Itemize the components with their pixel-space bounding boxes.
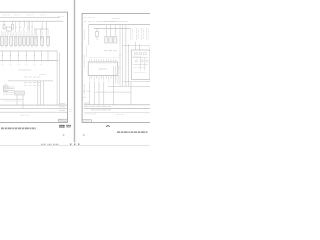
local line [0,98,23,100]
breaker box row CB1 [105,37,108,44]
inline component marks on drops [2,54,36,56]
sheet border frame left page [0,12,67,122]
pin id text inside box top [90,63,116,65]
vertical margin text 3 [83,84,85,95]
wire drop [46,29,48,35]
vertical margin text 1 [83,30,85,40]
ECU module block [131,50,150,79]
sub bus [34,28,48,30]
small label text [40,74,46,76]
top bus lower [94,27,130,29]
wire with inline fuse [96,28,98,40]
pin label texture in connector row [2,37,48,44]
stamp mark 1 (bold) [59,126,65,128]
wire drop from bus [24,21,26,27]
pin ticks up [89,59,115,62]
switch symbol speckle [35,35,48,40]
vertical margin text 2 [83,55,85,68]
fuse F1 [3,25,5,30]
wire drop [34,29,36,35]
lower text rows [4,93,15,95]
terminal tick marks [89,79,113,82]
fuse F10 [96,32,99,37]
mid bus [0,50,58,52]
drops below ECM box [89,75,115,79]
ECU internal divider [131,56,141,58]
net name text band 2 [91,109,111,111]
pin number text under boxes [1,46,49,48]
ECU outer boundary [122,46,150,82]
long verticals to bottom bus [89,83,113,105]
lower bus with junction ticks [0,60,58,62]
wires into ECU top [136,42,140,50]
faint lower rule [84,112,150,114]
bus row 2 label [84,106,90,108]
caption Figure 2 [117,131,148,133]
page number right [83,134,85,136]
sheet border frame right page [82,13,150,122]
top bus main [89,24,151,26]
note text [5,100,21,102]
faint note [20,114,29,116]
splice label text [81,90,91,92]
terminal id row 2 [24,82,40,84]
long wire pair [57,51,59,105]
breaker box row CB3 [114,37,117,44]
pin number row above box [89,57,117,59]
tick id text [2,64,43,66]
branch wire [17,95,23,109]
wire drop [39,29,41,35]
bus row 1 label [84,102,90,104]
wire drop from bus [12,21,14,24]
shaded module box [15,91,25,95]
splice line [95,91,131,93]
bottom bus row 1 [84,104,150,106]
wire stubs below mid bus [3,51,48,59]
terminal id row 1 [24,76,40,78]
column feed drops [16,21,49,34]
ECU internal symbols [133,53,148,73]
caption Figure 1 [1,127,36,129]
bottom bus row 2 [84,107,150,109]
bottom bus 2 [0,108,67,110]
sensor wires cluster [113,66,118,84]
bottom bus 3 [0,111,67,113]
corner cell text [83,120,90,122]
page number left [63,134,65,136]
wire drop from bus [46,21,48,29]
ECM label text [99,68,107,70]
bottom bus 1 [0,104,67,106]
text left of block row1 [119,55,122,58]
harness line [8,80,53,82]
footer text in frame [85,113,125,116]
fuse F2 [12,25,14,30]
title block text [59,120,66,122]
bus end net labels [59,104,65,111]
inline symbol marks on drops [15,26,43,28]
label text row [19,69,32,71]
net label row [2,15,64,17]
title block dividers [59,119,68,122]
faint id row 3 [24,84,40,86]
page indicator text [41,143,59,145]
zoom controls [70,143,80,145]
wire drop from bus [29,21,31,31]
net name text band 1 [91,106,111,108]
relay symbol streak row [131,28,149,40]
wire triple vertical [38,81,44,105]
status bar rule [0,145,150,147]
wires left of block [120,25,122,87]
top bus faint [96,20,128,22]
power bus B+ [0,20,63,22]
zone letters outside frame [70,110,73,112]
header text row 1 [84,16,120,19]
title block [59,119,68,122]
page gutter shadow [73,0,76,142]
wire drop from ECU bottom [130,82,132,105]
junction tick symbols [3,59,48,62]
breaker box row CB2 [109,37,112,44]
central module ECM box [88,62,118,75]
vertical note text [86,46,88,58]
mid bus right [108,85,150,87]
connector J5 block [3,86,8,91]
pin list text right of J5 [9,87,15,90]
breaker hatch texture [106,37,116,42]
corner title cell [82,120,91,123]
wire drops [106,25,128,87]
relay K1 [6,27,11,31]
wire drop from bus [3,21,5,24]
header text row 2 [84,21,115,23]
component labels row [105,50,117,52]
wire drop left [88,25,90,45]
connector block row X1-X11 [1,36,50,45]
stamp squiggle right page [106,125,109,128]
stamp mark 2 (bold) [66,125,71,127]
component label band upper speckle [1,32,33,37]
upper bus faint [0,17,60,19]
text left of block row2 [119,67,122,70]
ground ref text [83,96,87,98]
connector J5 label [4,84,7,86]
pin text inside J5 [4,87,7,90]
